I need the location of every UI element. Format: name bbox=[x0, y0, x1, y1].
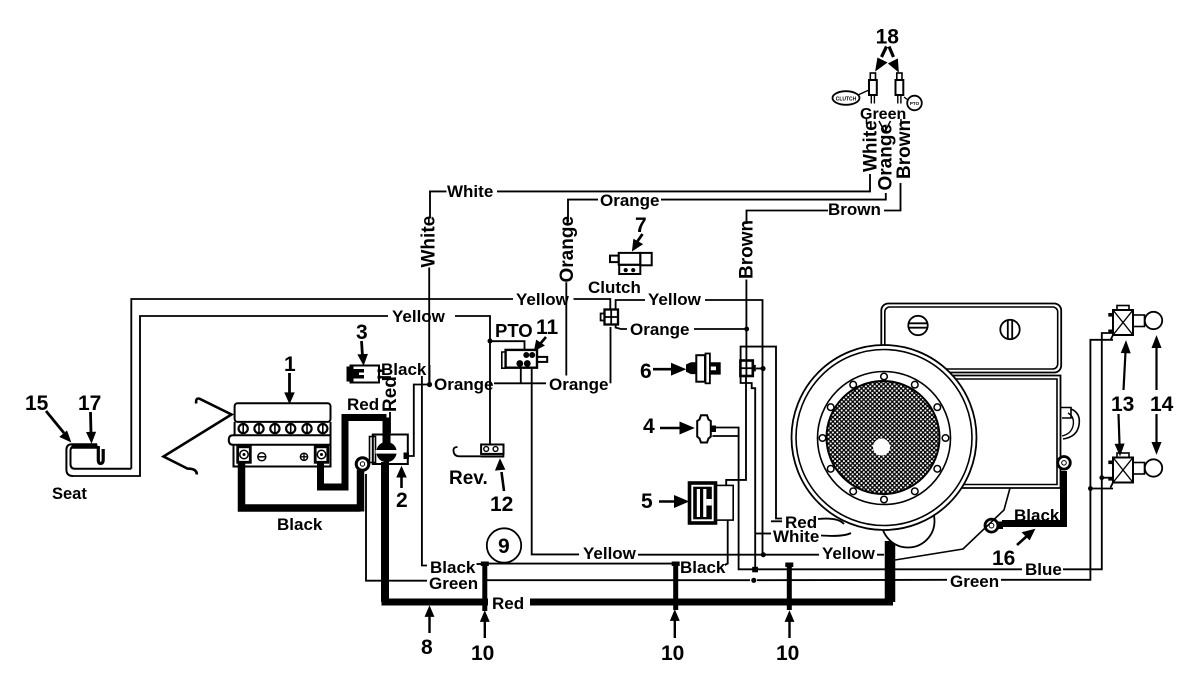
svg-text:Yellow: Yellow bbox=[392, 307, 446, 326]
svg-text:Orange: Orange bbox=[549, 375, 609, 394]
svg-text:Yellow: Yellow bbox=[516, 290, 570, 309]
svg-text:13: 13 bbox=[1111, 393, 1134, 416]
svg-text:Blue: Blue bbox=[1025, 560, 1062, 579]
svg-text:CLUTCH: CLUTCH bbox=[836, 96, 857, 102]
svg-text:Black: Black bbox=[680, 558, 726, 577]
svg-text:Brown: Brown bbox=[894, 120, 915, 179]
svg-text:Brown: Brown bbox=[828, 200, 881, 219]
svg-text:Orange: Orange bbox=[434, 375, 494, 394]
svg-text:Yellow: Yellow bbox=[822, 544, 876, 563]
svg-text:Yellow: Yellow bbox=[583, 544, 637, 563]
svg-text:18: 18 bbox=[876, 26, 900, 49]
svg-text:Black: Black bbox=[277, 515, 323, 534]
svg-text:10: 10 bbox=[661, 642, 684, 665]
svg-text:10: 10 bbox=[471, 642, 494, 665]
svg-text:8: 8 bbox=[421, 636, 433, 659]
svg-text:Green: Green bbox=[429, 574, 478, 593]
svg-text:3: 3 bbox=[356, 321, 368, 344]
svg-text:16: 16 bbox=[992, 547, 1015, 570]
svg-text:6: 6 bbox=[640, 360, 652, 383]
svg-text:Red: Red bbox=[492, 594, 524, 613]
svg-text:Yellow: Yellow bbox=[648, 290, 702, 309]
svg-text:White: White bbox=[419, 216, 440, 268]
svg-text:Seat: Seat bbox=[52, 485, 87, 503]
svg-text:7: 7 bbox=[635, 214, 647, 237]
svg-text:17: 17 bbox=[78, 392, 101, 415]
svg-text:15: 15 bbox=[25, 392, 49, 415]
svg-text:11: 11 bbox=[536, 316, 559, 339]
svg-text:Red: Red bbox=[347, 395, 379, 414]
svg-text:Brown: Brown bbox=[736, 220, 757, 279]
svg-text:1: 1 bbox=[284, 353, 296, 376]
svg-text:10: 10 bbox=[776, 642, 799, 665]
svg-text:Orange: Orange bbox=[630, 320, 690, 339]
svg-text:12: 12 bbox=[490, 493, 513, 516]
svg-text:9: 9 bbox=[498, 535, 510, 558]
svg-text:4: 4 bbox=[643, 415, 655, 438]
svg-text:Rev.: Rev. bbox=[449, 468, 488, 489]
svg-text:PTO: PTO bbox=[910, 101, 920, 106]
svg-text:14: 14 bbox=[1150, 393, 1174, 416]
svg-text:PTO: PTO bbox=[495, 320, 533, 341]
svg-text:5: 5 bbox=[641, 490, 653, 513]
svg-text:Red: Red bbox=[380, 376, 401, 412]
svg-text:Orange: Orange bbox=[557, 216, 578, 283]
svg-text:Orange: Orange bbox=[600, 191, 660, 210]
svg-text:White: White bbox=[447, 182, 493, 201]
svg-text:Black: Black bbox=[1014, 506, 1060, 525]
svg-text:2: 2 bbox=[396, 489, 408, 512]
svg-text:White: White bbox=[773, 527, 819, 546]
svg-text:Clutch: Clutch bbox=[588, 278, 641, 297]
svg-text:Green: Green bbox=[950, 572, 999, 591]
